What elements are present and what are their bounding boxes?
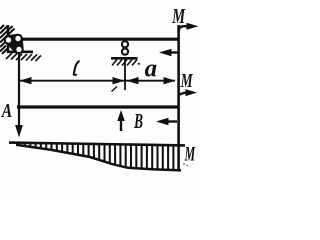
extension line under roller [124,59,126,90]
pin hole 1 [6,37,11,42]
wall hatching at left support [0,25,15,54]
pin hole 2 [15,36,20,41]
left arrow 2 (couple, below lower line) [166,120,177,122]
moment arrow M2 (mid right) [179,93,188,95]
dim arrowhead left (a) [127,77,139,84]
roller support circles [122,41,128,47]
dimension label l [74,61,79,75]
pin bracket (hinge support) [9,39,20,50]
pin hole 3 [16,47,21,52]
moment diagram baseline [9,143,185,146]
support ground hatching [6,53,41,61]
dimension label a [145,65,157,77]
arrowhead A (down) [15,125,23,138]
dim arrowhead right (a) [164,77,176,84]
label A [1,104,12,117]
moment diagram hatching [25,144,173,170]
lower beam line [17,105,179,108]
dimension line [19,80,175,82]
right vertical line [177,25,180,171]
dim arrowhead left (l) [20,77,32,84]
ink specks [183,163,185,165]
label M2 [181,74,194,87]
label M3 [185,147,196,161]
reaction line A (left vertical) [18,52,20,127]
roller ground line [111,57,138,60]
wall line [7,25,9,53]
ink dot [138,63,140,65]
left arrow 1 (couple, below beam) [168,51,179,53]
roller ground hatching [112,60,137,66]
label B [134,114,143,128]
moment diagram bottom edge [16,145,181,171]
moment arrow M1 (top right) [179,26,190,31]
dim arrowhead right (l) [113,77,125,84]
junction tick [112,87,118,92]
arrow B (up) [120,120,122,131]
support ground line [7,50,33,53]
beam top line [21,38,179,41]
label M1 [172,9,186,23]
